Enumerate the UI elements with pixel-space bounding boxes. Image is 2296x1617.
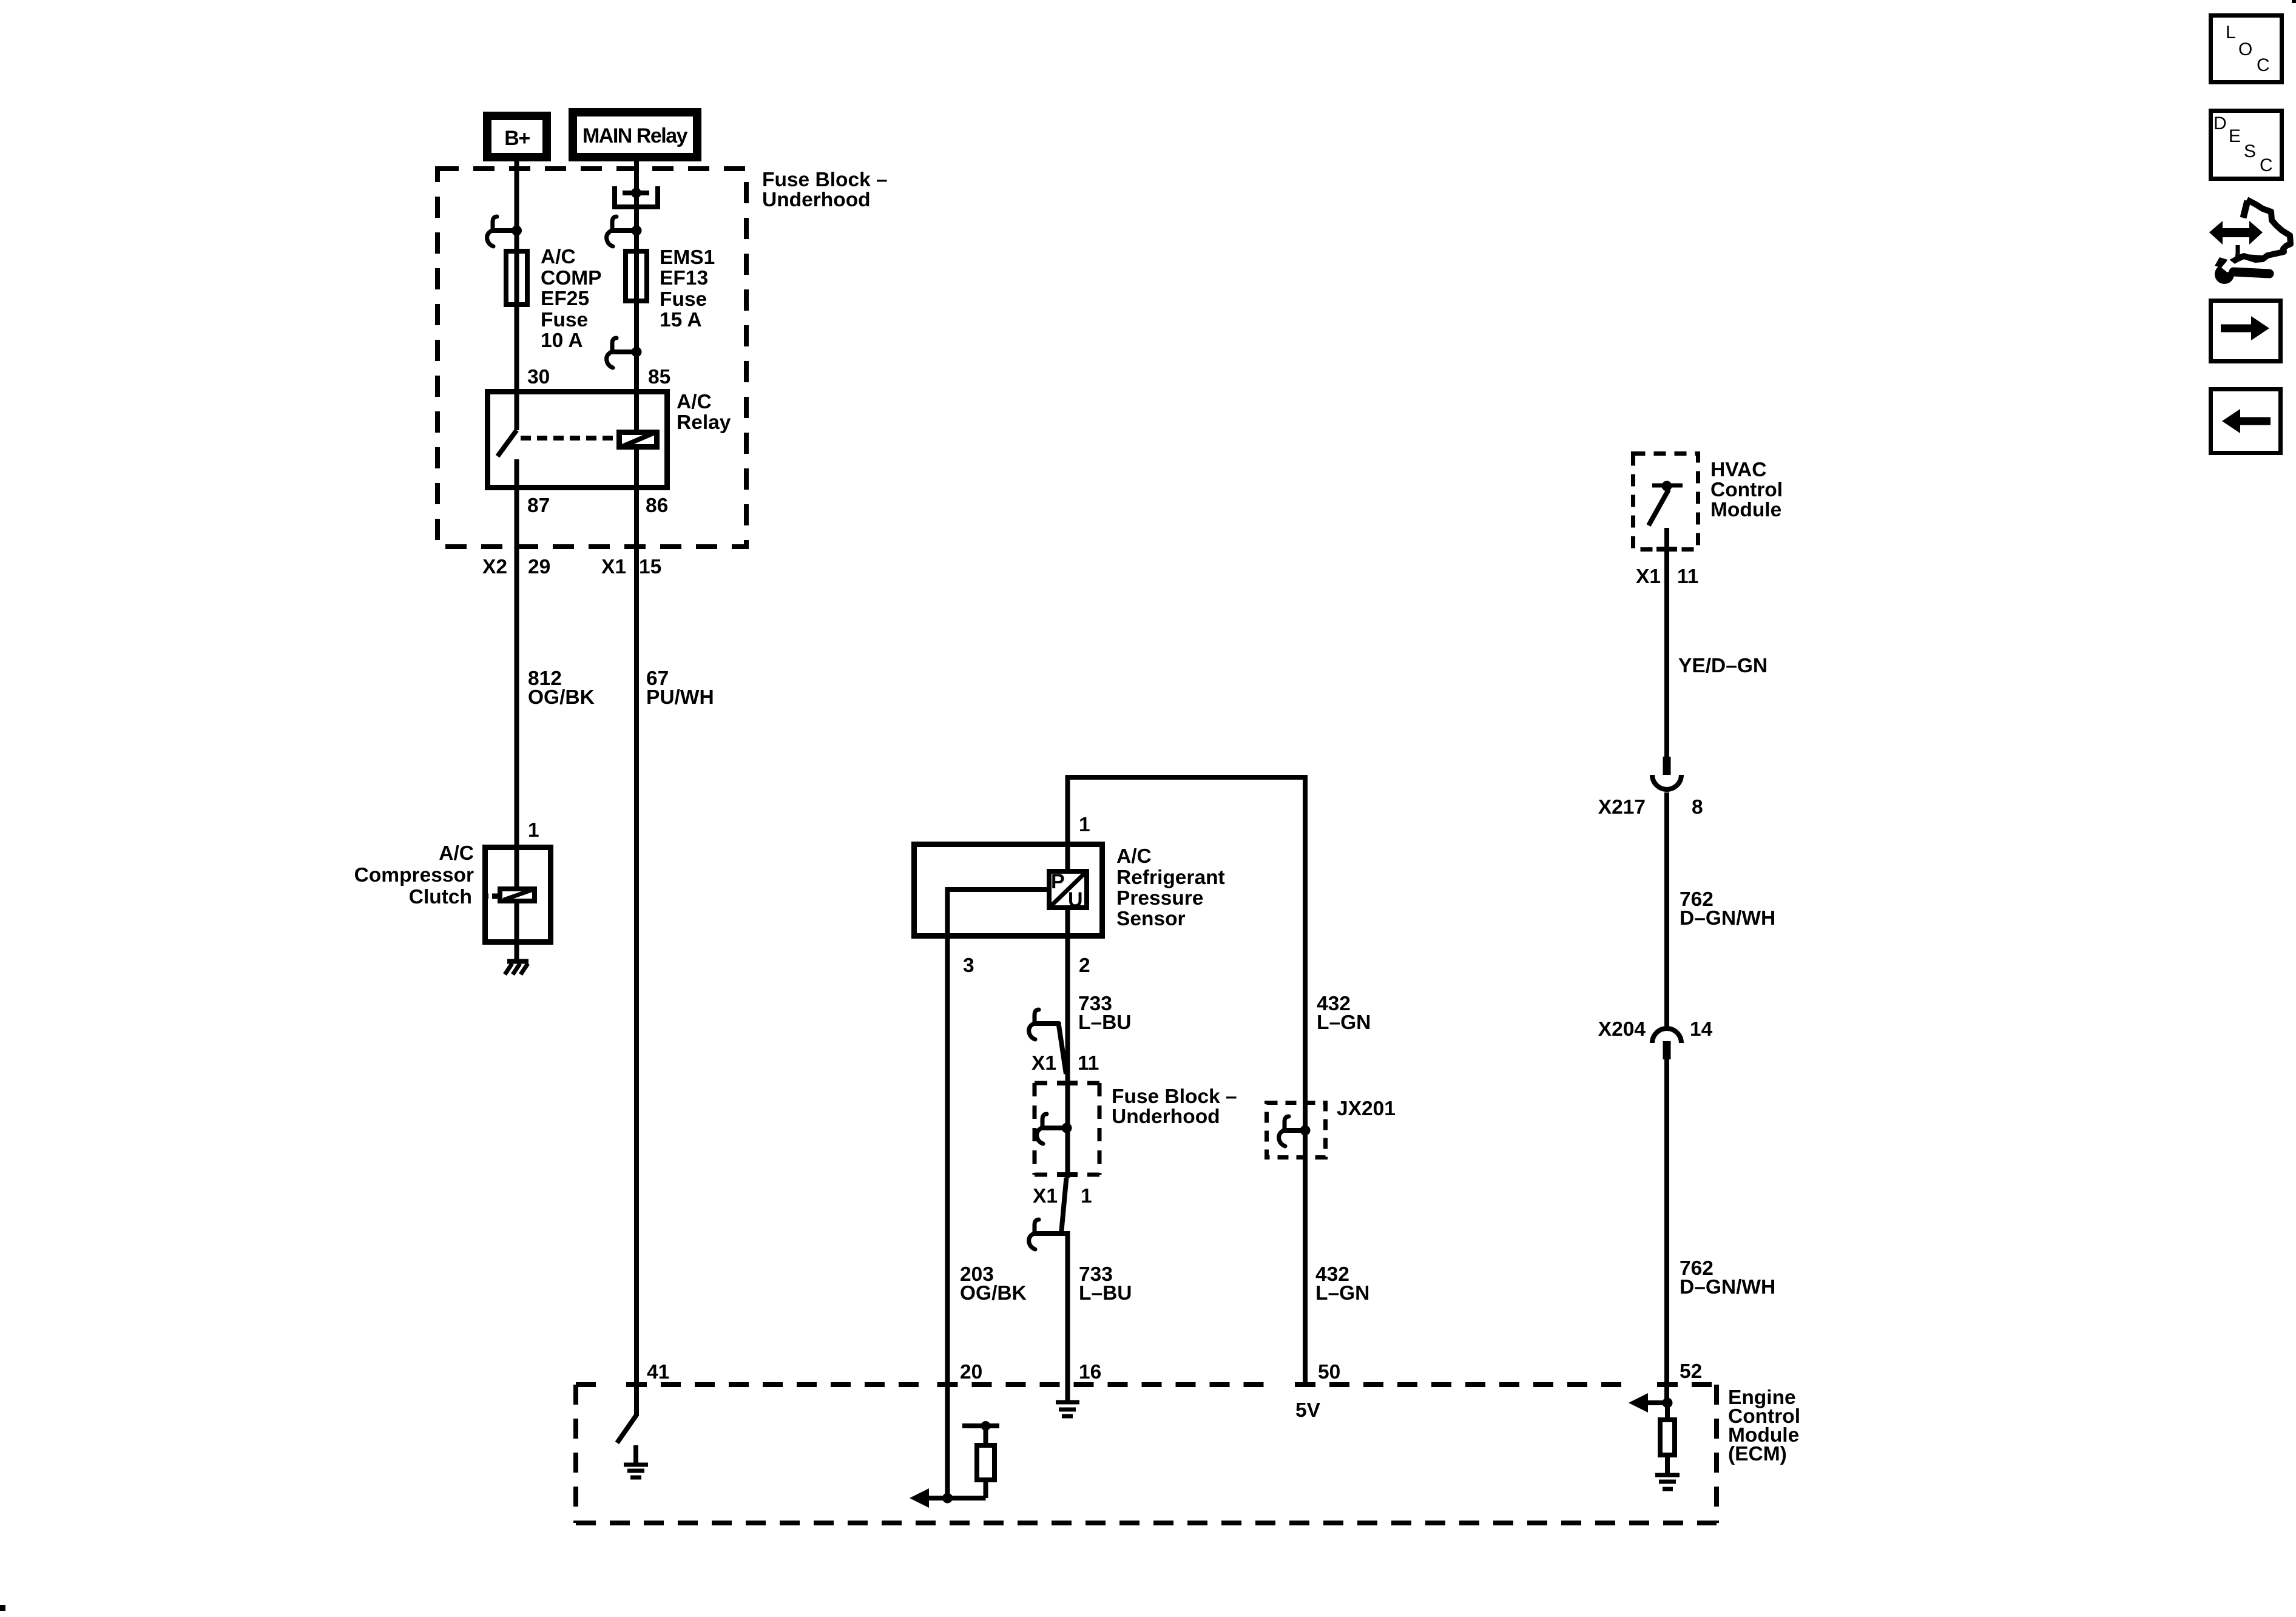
HVAC switch arm [1649,490,1669,525]
svg-text:D–GN/WH: D–GN/WH [1680,907,1775,930]
svg-text:14: 14 [1690,1018,1713,1041]
svg-text:20: 20 [960,1361,982,1383]
ECM pin 20 link to resistor [947,1496,986,1501]
relay switch arm [498,430,517,456]
fuse A/C COMP EF25 10A [506,251,527,305]
wire MAIN relay to bus bracket [634,161,639,430]
svg-text:C: C [2257,55,2270,75]
wire 812 OG/BK label [528,667,595,709]
junction dot JX201 [1300,1126,1311,1136]
clutch coil left nub [484,894,498,899]
hook inside middle fuse block [1037,1114,1066,1144]
ECM pin 20 arrow line [928,1496,947,1501]
corner mark top right [2292,0,2296,3]
svg-text:YE/D–GN: YE/D–GN [1678,655,1768,677]
svg-text:1: 1 [1079,814,1090,836]
wire 762 D-GN/WH label lower [1680,1257,1775,1298]
ECM pin 52 arrow line [1647,1400,1667,1405]
svg-text:JX201: JX201 [1337,1098,1396,1120]
wire sensor pin 3 [948,890,1047,1498]
svg-text:5V: 5V [1295,1399,1321,1422]
svg-text:C: C [2260,155,2273,175]
A/C refrigerant pressure sensor box [914,845,1102,936]
svg-text:EF25: EF25 [541,288,589,310]
hook inside JX201 [1279,1116,1305,1146]
svg-text:OG/BK: OG/BK [528,686,595,709]
wire HVAC to X217 [1664,528,1669,758]
wire relay pin 87 down to clutch [515,459,519,845]
sidebar back arrow icon [2211,390,2281,453]
resistor ECM pin 52 [1660,1420,1675,1455]
ground ECM pin 16 [1056,1402,1079,1416]
svg-text:(ECM): (ECM) [1728,1443,1787,1465]
svg-text:OG/BK: OG/BK [960,1282,1027,1305]
svg-text:X1: X1 [1636,565,1661,588]
svg-text:52: 52 [1680,1360,1702,1383]
svg-text:HVAC: HVAC [1710,459,1766,481]
svg-text:Clutch: Clutch [409,886,472,908]
svg-text:EMS1: EMS1 [660,246,715,269]
wire sensor pin 2 [1065,908,1070,1178]
svg-text:X1: X1 [1032,1052,1056,1075]
B+ power tag [483,112,551,161]
sidebar DESC icon [2211,111,2282,179]
sidebar LOC icon [2211,16,2282,83]
wire X204 to ECM pin 52 [1664,1059,1669,1403]
svg-text:X1: X1 [1033,1185,1058,1207]
svg-text:Compressor: Compressor [354,864,474,886]
junction dot on B+ wire [512,226,522,236]
svg-text:Sensor: Sensor [1116,908,1186,930]
svg-text:41: 41 [647,1361,669,1383]
ECM pin 52 ground stub [1665,1455,1670,1474]
ECM pin 52 wire to resistor [1665,1403,1670,1420]
fuse EMS1 label [660,246,715,331]
svg-text:MAIN Relay: MAIN Relay [582,124,688,147]
svg-text:Pressure: Pressure [1116,887,1203,910]
resistor ECM pin 20 [977,1445,994,1480]
connector hook on EMS1 wire lower [607,338,636,368]
A/C compressor clutch label [354,842,474,908]
svg-text:Refrigerant: Refrigerant [1116,866,1225,889]
fuse block underhood dashed box (top left) [437,169,746,547]
junction dot in bracket [631,188,641,198]
junction dot upper EMS1 [632,226,642,236]
ECM pin 41 entry stub [634,1385,639,1416]
wire relay pin 86 down to ECM pin 41 [634,450,639,1382]
svg-text:50: 50 [1318,1361,1340,1383]
svg-text:Underhood: Underhood [762,189,871,211]
sensor label [1116,845,1225,930]
wire 432 L-GN label lower [1315,1263,1369,1305]
svg-text:8: 8 [1692,796,1703,819]
svg-text:11: 11 [1677,565,1698,588]
wire 733 to ECM [1065,1231,1070,1401]
svg-text:U: U [1068,888,1083,911]
wire 432 L-GN label upper [1317,993,1371,1034]
junction dot middle fuse block [1062,1123,1072,1133]
svg-text:L–BU: L–BU [1079,1282,1132,1305]
ECM pin 20 junction dot [942,1493,953,1504]
A/C relay box [488,392,667,488]
sidebar next arrow icon [2211,301,2281,362]
svg-text:A/C: A/C [1116,845,1152,868]
middle fuse block dashed box [1035,1083,1099,1175]
wire B+ to relay pin 30 [515,159,519,430]
svg-text:A/C: A/C [439,842,474,865]
svg-text:86: 86 [646,495,668,517]
svg-text:COMP: COMP [541,267,602,289]
corner dot bottom left [0,1605,5,1611]
svg-text:L–GN: L–GN [1315,1282,1369,1305]
tick bottom HVAC box [1656,547,1677,552]
fuse A/C COMP label [541,246,602,352]
tick bottom middle fuse block [1057,1172,1078,1177]
svg-text:EF13: EF13 [660,267,708,289]
svg-text:P: P [1051,870,1065,893]
ECM pin 20 supply dot [981,1421,991,1431]
svg-text:A/C: A/C [677,391,712,413]
svg-text:L–GN: L–GN [1317,1011,1371,1034]
svg-text:X217: X217 [1598,796,1646,819]
wire sensor pin 1 up and over to 432 [1068,777,1306,1382]
fuse EMS1 EF13 15A [626,251,647,301]
svg-text:L–BU: L–BU [1078,1011,1131,1034]
ECM pin 41 switch arm [617,1415,636,1443]
svg-text:29: 29 [528,556,550,578]
wire 733 L-BU label lower [1079,1263,1132,1305]
wire 67 PU/WH label [646,667,714,709]
ground ECM pin 52 [1655,1475,1680,1489]
connector X217 pin [1663,757,1671,775]
svg-text:B+: B+ [504,127,530,150]
svg-text:A/C: A/C [541,246,576,268]
A/C relay label [677,391,731,434]
svg-text:1: 1 [528,819,539,842]
wire 762 D-GN/WH label upper [1680,888,1775,930]
ECM pin 52 arrowhead [1629,1393,1648,1413]
svg-text:D: D [2213,113,2227,133]
svg-text:2: 2 [1079,954,1090,977]
connector X204 socket arc [1652,1028,1681,1043]
relay actuation dashed link [521,436,614,441]
svg-text:1: 1 [1081,1185,1092,1207]
svg-text:S: S [2244,141,2256,161]
svg-text:X204: X204 [1598,1018,1646,1041]
wire X217 to X204 [1664,792,1669,1027]
svg-text:3: 3 [963,954,974,977]
ECM pin 20 arrowhead [910,1488,929,1508]
relay coil box [620,433,657,447]
svg-text:Fuse: Fuse [541,309,588,331]
bus bar bracket symbol [615,186,658,207]
chassis ground clutch [505,962,528,975]
connector hook on B+ wire [487,217,516,246]
relay coil diagonal [621,432,656,447]
connector X1/11 hook above middle fuse block [1029,1010,1066,1074]
fuse block underhood label [762,169,888,211]
middle fuse block label [1112,1085,1237,1128]
clutch coil diagonal [504,890,532,900]
svg-text:85: 85 [648,366,670,388]
svg-text:D–GN/WH: D–GN/WH [1680,1276,1775,1298]
sidebar connector service icon [2209,200,2291,284]
clutch internal wire [515,845,519,889]
svg-text:Relay: Relay [677,411,731,434]
connector X1/1 hook below middle fuse block [1029,1178,1067,1249]
svg-text:30: 30 [527,366,550,388]
ECM dashed box [576,1385,1717,1523]
svg-text:87: 87 [527,495,550,517]
ECM pin 52 junction dot [1663,1398,1673,1408]
tick top middle fuse block [1057,1081,1078,1085]
svg-text:Module: Module [1710,499,1781,521]
connector X217 socket arc [1652,775,1681,789]
svg-text:Fuse: Fuse [660,288,707,311]
P/U diagonal [1049,871,1087,908]
svg-text:L: L [2226,22,2236,42]
MAIN Relay power tag [569,108,701,161]
svg-text:Underhood: Underhood [1112,1106,1220,1128]
ECM pin 20 resistor upper stub [984,1426,988,1445]
JX201 dashed box [1267,1103,1326,1158]
HVAC switch bar [1652,484,1683,488]
HVAC control module dashed box [1633,454,1698,550]
svg-text:15: 15 [639,556,661,578]
svg-text:Fuse Block –: Fuse Block – [1112,1085,1237,1108]
svg-text:PU/WH: PU/WH [646,686,714,709]
svg-text:16: 16 [1079,1361,1101,1383]
P/U transducer box [1049,871,1087,908]
connector X204 pin [1663,1041,1671,1059]
wire 203 OG/BK label [960,1263,1027,1305]
svg-text:Fuse Block –: Fuse Block – [762,169,888,191]
svg-text:11: 11 [1078,1052,1099,1075]
svg-text:15 A: 15 A [660,309,702,331]
svg-text:O: O [2238,39,2252,59]
ECM pin 20 resistor lower stub [984,1482,988,1498]
connector hook on EMS1 wire upper [607,217,636,246]
A/C compressor clutch box [485,848,551,942]
clutch lower wire to ground [515,901,519,962]
svg-text:E: E [2229,126,2241,146]
ECM pin 20 supply bar [962,1423,999,1428]
ground ECM pin 41 [624,1465,648,1477]
HVAC switch dot [1662,481,1672,491]
ECM label [1728,1386,1800,1465]
svg-text:Control: Control [1710,479,1783,501]
svg-text:X1: X1 [601,556,626,578]
HVAC label [1710,459,1783,521]
junction dot lower EMS1 [632,347,642,357]
ECM pin 41 ground stub [633,1445,638,1464]
svg-text:10 A: 10 A [541,329,583,352]
svg-text:X2: X2 [482,556,507,578]
clutch coil box [500,889,535,901]
wire 733 L-BU label upper [1078,993,1131,1034]
